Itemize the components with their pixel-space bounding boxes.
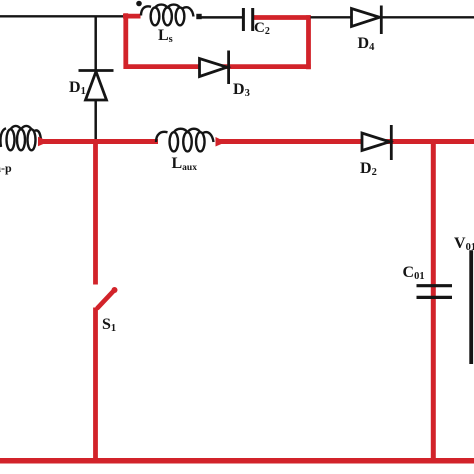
inductor Laux [156, 129, 214, 152]
junction square after Ls [196, 14, 201, 19]
svg-text:Laux: Laux [172, 155, 198, 173]
wire: black rail right of snubber to D4 [311, 16, 353, 18]
wire: red right vertical (output branch) [431, 139, 436, 463]
wire: black D1 branch lower (D1 to mid rail) [94, 100, 97, 142]
svg-text:S1: S1 [102, 316, 116, 334]
svg-text:m-p: m-p [0, 161, 12, 175]
wire: black D1 branch upper (rail to D1) [94, 16, 97, 71]
svg-text:C2: C2 [254, 20, 270, 37]
dot polarity marker above Ls [136, 1, 142, 7]
svg-text:Ls: Ls [158, 27, 173, 45]
switch S1: upper red lead [93, 139, 98, 285]
capacitor C01 [417, 286, 453, 298]
wire: black Ls to C2 [198, 16, 244, 19]
wire: red left vertical of snubber loop [123, 13, 128, 69]
wire: red mid rail Lm-p to Laux [42, 139, 158, 144]
inductor Ls [141, 5, 194, 26]
svg-text:C01: C01 [403, 264, 425, 282]
wire: red segment C2 to right vertical (top) [254, 15, 311, 20]
diode D4 [352, 6, 382, 35]
svg-text:D2: D2 [360, 160, 377, 178]
svg-text:D1: D1 [69, 79, 86, 97]
diode D1 [79, 71, 114, 101]
arrow: red current arrow after Lm-p [38, 137, 49, 146]
svg-text:D3: D3 [233, 81, 250, 99]
switch S1: blade [98, 291, 115, 309]
wire: red bottom horizontal of snubber loop [124, 64, 311, 69]
capacitor C2 [243, 8, 252, 31]
inductor Lm-p (primary, cut off at left edge) [0, 126, 41, 150]
wire: red mid rail Laux to right edge [219, 139, 474, 144]
diode D2 [362, 125, 391, 160]
wire: top rail right of D4 [382, 16, 474, 18]
wire: red right vertical of snubber loop [306, 15, 311, 69]
load bar (left edge of load, cut off at right) [469, 250, 473, 364]
arrow: red current arrow after Laux [216, 137, 227, 147]
svg-text:D4: D4 [358, 35, 376, 53]
wire: top rail left (black) [0, 15, 125, 17]
diode D3 [200, 51, 229, 85]
node A: red corner junction top-left [123, 14, 141, 19]
wire: bottom rail (red) [0, 458, 474, 464]
switch S1: lower red lead [93, 308, 98, 464]
